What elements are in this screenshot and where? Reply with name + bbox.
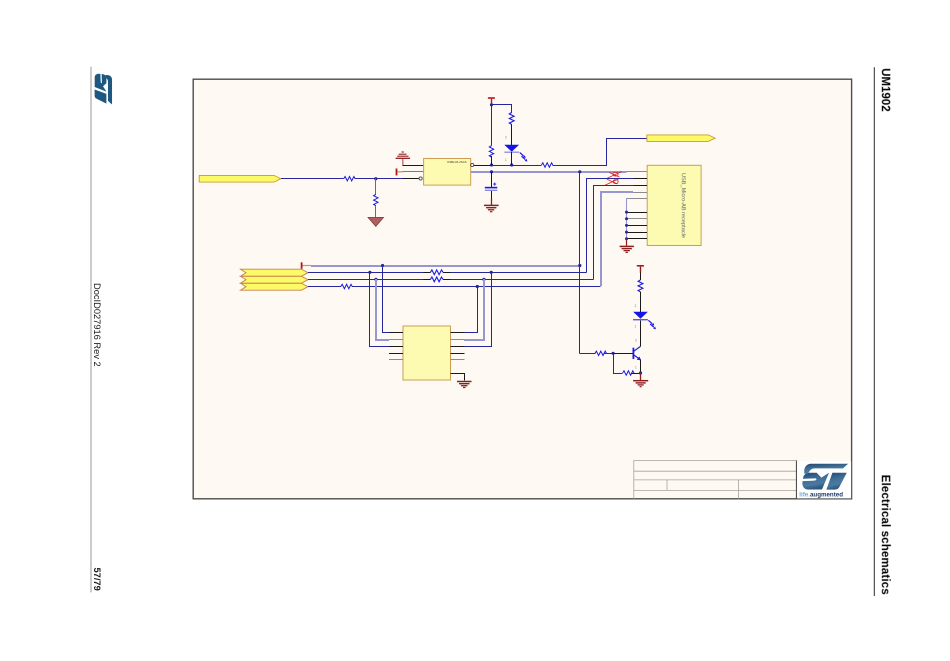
pin label 2 — [505, 136, 507, 140]
J2 pin 4 stub + wire — [601, 192, 647, 286]
node H junction — [578, 264, 581, 267]
resistor R9 (base) — [595, 351, 606, 355]
node I junction — [368, 271, 371, 274]
Electrical schematics (rotated) — [879, 475, 891, 595]
wire node E down to C1 — [491, 172, 493, 187]
earth ground below Q1 — [633, 381, 648, 387]
wire bus2 to X1 (left col outer) — [370, 273, 390, 347]
wire node F down to transistor branch — [579, 172, 581, 354]
ST logo glyph (rotated, page top-left) — [95, 72, 112, 104]
capacitor C1 (polarized) — [485, 183, 498, 191]
resistor R6 — [423, 270, 450, 275]
wire node B to R5 — [492, 165, 542, 167]
X1 ground pin wire — [451, 374, 465, 381]
node N junction — [612, 352, 615, 355]
svg-text:USB_Micro-AB receptacle: USB_Micro-AB receptacle — [680, 173, 686, 238]
resistor R1 — [344, 177, 355, 181]
wire P2 to node D — [491, 104, 493, 146]
wire R2 to ground — [375, 205, 377, 217]
resistor R11 (vertical) — [638, 280, 643, 292]
wire bus4 to X1 (right col inner) — [465, 286, 478, 333]
ST logo (title block) — [797, 461, 851, 498]
U1 pin 2 wire right (wide lavender) — [471, 171, 580, 173]
X1 left pin stubs — [389, 333, 403, 360]
pin label 1 (emitter) — [635, 366, 637, 370]
X1 right pin stubs — [451, 333, 465, 360]
wire bus2 to X1 (right col outer) — [465, 273, 492, 347]
U1 pin 1 bubble + wire right — [471, 163, 492, 166]
bus wire 3 — [308, 279, 594, 281]
wire node H continuation to base resistor — [580, 353, 596, 355]
J2 pin 5 stub + wire down — [627, 199, 648, 239]
wire P4 to R11 — [640, 273, 642, 280]
harness connector J4 (top) — [241, 269, 309, 276]
wire C1 to ground — [491, 191, 493, 205]
svg-text:DocID027916 Rev 2: DocID027916 Rev 2 — [92, 283, 102, 367]
power pin P3 (red bar) — [302, 262, 311, 269]
UM1902 (rotated) — [879, 68, 891, 111]
node M junction — [476, 285, 479, 288]
wire R4 to node B — [491, 156, 493, 165]
resistor R3 (vertical) — [509, 112, 514, 124]
pin label 1 — [505, 158, 507, 162]
right header rule — [873, 67, 875, 596]
svg-text:life.augmented: life.augmented — [799, 491, 843, 498]
LED D1 — [504, 145, 527, 162]
wire D1 to node C — [511, 152, 513, 165]
node D junction — [490, 103, 493, 106]
transistor Q1 (NPN) — [633, 347, 641, 361]
node A junction — [374, 177, 377, 180]
no-ERC marker 2 — [604, 178, 619, 185]
earth ground below J2 — [620, 246, 634, 252]
wire J1 to R1 — [281, 178, 344, 180]
svg-text:2: 2 — [635, 304, 637, 308]
resistor R4 (vertical, left branch) — [489, 146, 493, 157]
wire P1 to U1 pin 2 — [403, 171, 423, 173]
wire bus1 to X1 pin (left col inner) — [383, 266, 390, 333]
svg-text:Electrical schematics: Electrical schematics — [879, 475, 891, 595]
bus wire 1 (power, lavender) — [311, 265, 580, 267]
node J junction — [490, 271, 493, 274]
chassis ground above U1 — [396, 152, 411, 165]
wire node N to Q1 base — [613, 353, 633, 355]
wire node A to U1 pin 3 — [403, 177, 422, 180]
resistor R5 (horizontal) — [541, 163, 552, 167]
pin label 2 (D2) — [635, 304, 637, 308]
wire R3 to LED D1 — [511, 125, 513, 146]
node L junction — [482, 278, 485, 281]
resistor R10 — [623, 371, 634, 375]
USB connector J2 box — [647, 165, 701, 245]
J2 pin 9 stub — [625, 231, 647, 234]
crystal X1 box — [403, 326, 451, 380]
title block table — [634, 461, 797, 499]
connector J3 label (top right arrow) — [647, 135, 715, 142]
node G junction — [381, 264, 384, 267]
svg-text:UM1902: UM1902 — [879, 68, 891, 111]
wire bus3 to X1 (left col mid) — [376, 279, 389, 340]
power flag P2 (top) — [488, 98, 495, 104]
J2 pin 1 stub — [627, 171, 648, 173]
pin label 1 (D2) — [635, 325, 637, 329]
wire chassis ground to U1 pin 1 — [403, 165, 424, 167]
wire R11 to LED D2 — [640, 292, 642, 312]
wire R1 to node A — [355, 178, 403, 180]
left footer rule — [90, 67, 92, 593]
bus wire 2 — [308, 272, 587, 274]
resistor R2 (vertical) — [374, 194, 378, 205]
svg-text:USBLC6-2SC6: USBLC6-2SC6 — [447, 160, 467, 164]
power ground (filled triangle) — [368, 217, 384, 226]
wire node D to R3 branch — [492, 105, 512, 113]
Q1 collector wire — [640, 321, 642, 347]
power flag P1 (red T) — [397, 169, 404, 176]
svg-text:1: 1 — [505, 158, 507, 162]
wire pin2 net to USB pin1 (lavender) — [580, 171, 627, 173]
svg-text:1: 1 — [635, 325, 637, 329]
earth ground below X1 — [457, 382, 472, 388]
resistor R7 — [423, 277, 450, 282]
svg-text:3: 3 — [635, 339, 637, 343]
node E junction — [490, 170, 493, 173]
node B junction — [490, 163, 493, 166]
LED D2 — [633, 312, 656, 330]
node F junction — [578, 170, 581, 173]
harness connector J5 (middle) — [241, 276, 309, 283]
harness connector J6 (bottom) — [241, 283, 309, 290]
wire bus3 to X1 (right col mid) — [464, 279, 484, 340]
J2 pin 2 stub + wire — [587, 179, 648, 273]
no-ERC marker 1 — [606, 172, 621, 179]
Q1 emitter wire — [640, 360, 642, 374]
J2 pin 8 stub — [625, 224, 647, 227]
resistor R8 — [341, 284, 352, 288]
wire R5 to connector J3 — [553, 139, 647, 166]
J2 pin 3 stub + wire — [594, 186, 648, 280]
svg-text:57/79: 57/79 — [92, 568, 102, 591]
wire node N down to R10 — [614, 354, 623, 374]
node C junction (LED branch) — [510, 163, 513, 166]
wire R10 to node O — [632, 373, 641, 375]
svg-text:2: 2 — [505, 136, 507, 140]
pin label 3 — [635, 339, 637, 343]
svg-text:1: 1 — [635, 366, 637, 370]
power flag P4 (LED branch top) — [637, 266, 644, 273]
wire node A down to R2 — [375, 179, 377, 195]
J2 pin 7 stub — [625, 217, 647, 220]
op IC U1 box — [424, 159, 471, 186]
wire pin10 to earth ground — [626, 239, 628, 246]
schematic sheet frame — [193, 79, 851, 499]
bus wire 4 — [308, 286, 601, 288]
earth ground below C1 — [484, 205, 499, 211]
wire node O to ground — [640, 373, 642, 380]
57/79 (rotated) — [92, 568, 102, 591]
DocID027916 Rev 2 (rotated) — [92, 283, 102, 367]
J2 pin 6 stub — [625, 211, 647, 214]
wire R9 to node N — [604, 353, 613, 355]
J2 pin 10 stub — [625, 237, 647, 240]
node K junction — [374, 278, 377, 281]
node O junction — [639, 371, 642, 374]
connector J1 label (left arrow) — [199, 175, 281, 182]
